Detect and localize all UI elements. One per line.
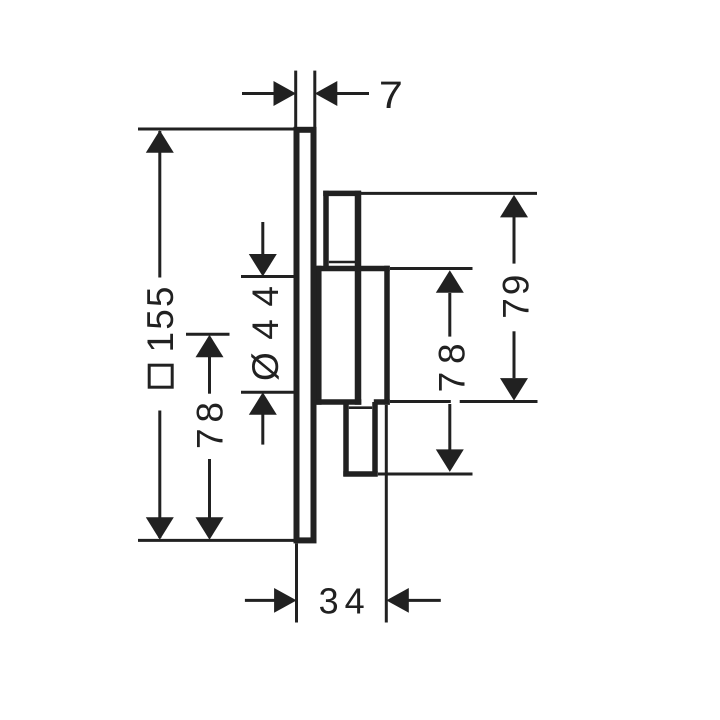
arrowheads dim 79 [500,195,528,218]
dim 78 left: center tick [186,333,230,336]
arrowheads dim 7 [274,81,297,106]
body left edge [316,266,322,405]
dim 79: dimension line [513,217,516,264]
bottom port left edge [343,402,349,476]
dim 7: extension lines [294,71,297,128]
dim 7: arrow lines [242,92,274,95]
dim 44: arrow stems [261,222,264,255]
arrowheads dim 44 [249,254,277,277]
svg-text:155: 155 [140,287,181,353]
dim 155: dimension line [158,131,161,278]
bottom port right edge [372,402,378,476]
dim 79: extension lines [361,192,537,195]
dim 34: extension lines [295,544,298,623]
bottom port inner line [349,406,372,409]
dim 78 right: extension lines [390,267,473,270]
label square-155 [140,287,181,388]
dim 155: extension lines [138,128,294,131]
sleeve front edge [355,191,362,405]
arrowheads dim 78 right [436,270,464,293]
top port left edge [323,191,329,269]
arrowheads dim 78 left [196,335,224,358]
body bottom edge left segment [317,399,362,405]
dim 78 right: dimension line [448,293,451,337]
dim 34: arrow lines [245,599,275,602]
arrowheads dim 155 [146,130,174,153]
wall plate 155x155x7 [297,130,314,541]
dim 78 left: dimension line [208,356,211,394]
dim 44: boundary lines [241,275,294,278]
bottom port bottom edge [343,471,377,477]
svg-text:7: 7 [379,75,403,117]
svg-text:Ø44: Ø44 [245,286,286,381]
arrowheads dim 34 [274,588,297,613]
body top edge [317,266,390,272]
body right edge [384,266,390,405]
body bottom edge right segment [374,399,390,405]
top port inner line [329,261,355,264]
top port top edge [323,191,361,197]
